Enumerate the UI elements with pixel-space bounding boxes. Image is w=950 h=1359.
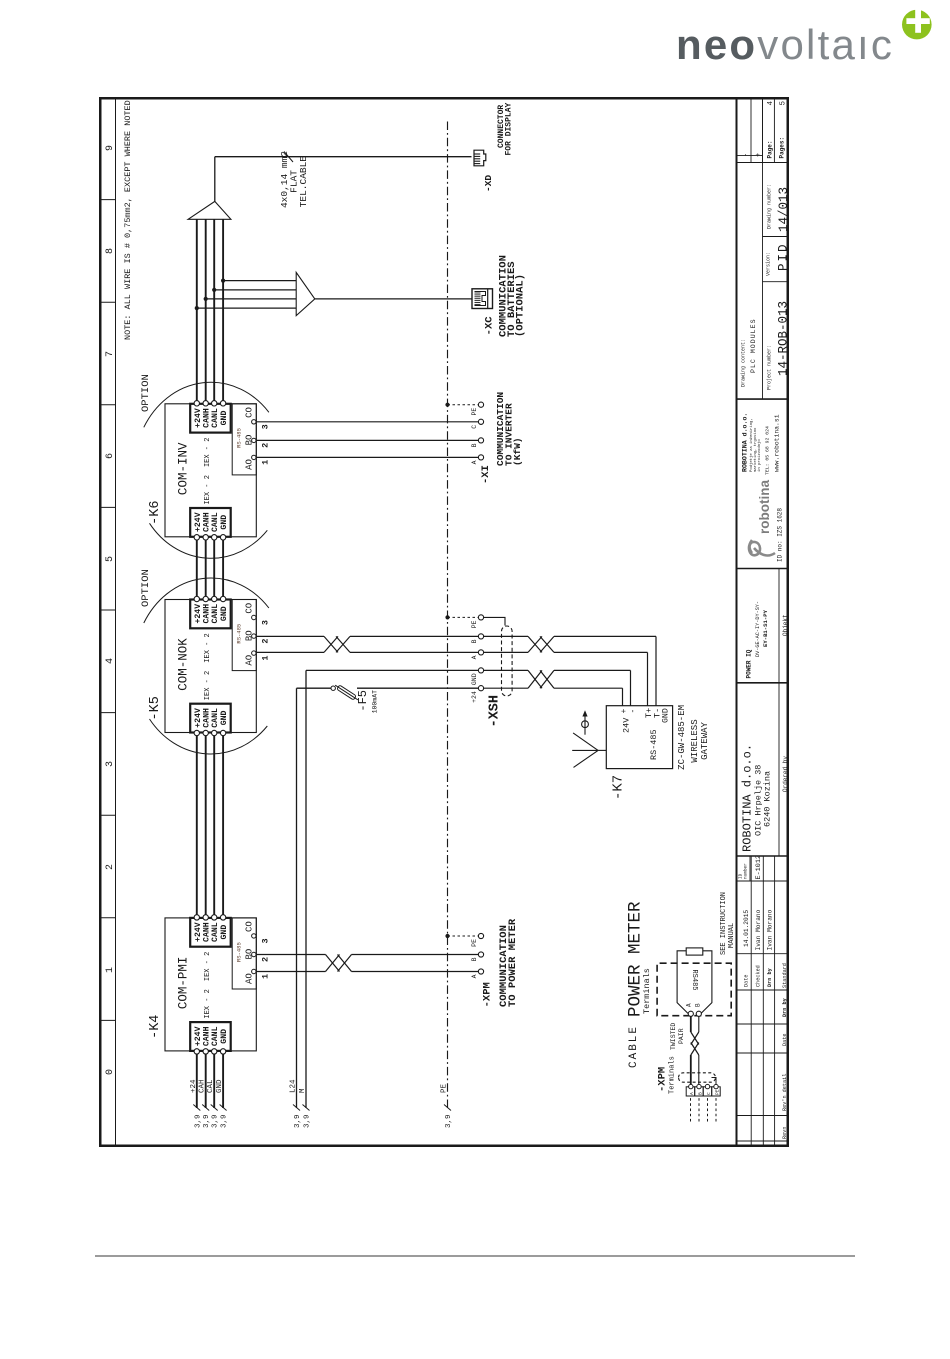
svg-text:PE: PE — [471, 939, 478, 947]
svg-text:RS-485: RS-485 — [649, 729, 659, 760]
XSH PE junction dot + dashed drop — [445, 615, 449, 619]
svg-text:Project number:: Project number: — [767, 345, 773, 390]
svg-text:B: B — [471, 639, 478, 643]
neovoltaic company logo — [676, 21, 894, 69]
svg-text:GND: GND — [216, 1079, 224, 1093]
svg-text:1: 1 — [261, 655, 271, 660]
wire flat tel cable to XD — [214, 157, 216, 202]
svg-text:DV-GE-AC-IY-DY-SY-: DV-GE-AC-IY-DY-SY- — [755, 601, 761, 657]
svg-text:0: 0 — [105, 1069, 116, 1075]
svg-text:PE: PE — [441, 1083, 449, 1093]
svg-text:+24V: +24V — [194, 1026, 203, 1046]
wire B to K7 T- — [484, 635, 528, 637]
svg-text:-F5: -F5 — [356, 690, 370, 712]
branch junction dots and drops to XC arrow — [195, 306, 199, 310]
svg-text:NOTE: ALL WIRE IS # 0,75mm2, E: NOTE: ALL WIRE IS # 0,75mm2, EXCEPT WHER… — [123, 100, 133, 340]
svg-text:OPTION: OPTION — [140, 374, 152, 412]
svg-text:+24V: +24V — [194, 708, 203, 728]
svg-text:-K5: -K5 — [148, 696, 163, 720]
svg-text:Drawing content:: Drawing content: — [741, 339, 747, 387]
svg-text:Ivan Morano: Ivan Morano — [755, 909, 762, 950]
connector XC rj45 icon — [472, 289, 493, 309]
twisted pair marks meter cable — [691, 1043, 699, 1056]
PE tail page ref — [444, 1105, 451, 1111]
svg-text:PE: PE — [714, 1089, 720, 1095]
module -K5 COM-NOK — [165, 596, 271, 735]
svg-text:CAL: CAL — [207, 1079, 215, 1093]
svg-text:3,9: 3,9 — [194, 1114, 202, 1128]
svg-text:Page:: Page: — [767, 140, 774, 158]
svg-text:9: 9 — [105, 145, 116, 151]
svg-text:SEE INSTRUCTION: SEE INSTRUCTION — [720, 892, 728, 955]
wire K5 BO to XSH B — [256, 635, 324, 637]
svg-text:CANL: CANL — [211, 1026, 220, 1046]
svg-text:-K6: -K6 — [148, 500, 163, 524]
svg-text:A: A — [686, 1003, 693, 1007]
svg-text:AO: AO — [245, 459, 255, 470]
svg-text:+24V: +24V — [194, 922, 203, 942]
svg-text:B: B — [695, 1003, 702, 1007]
svg-text:www.robotina.si: www.robotina.si — [774, 414, 781, 472]
svg-text:-: - — [629, 709, 638, 714]
svg-text:3,9: 3,9 — [445, 1114, 453, 1128]
svg-text:WIRELESS: WIRELESS — [690, 719, 700, 762]
XPM terminal circles — [478, 969, 483, 974]
svg-text:Ivan Morano: Ivan Morano — [767, 909, 774, 950]
PE to shield hook — [484, 617, 505, 625]
svg-text:+: + — [620, 709, 629, 714]
svg-text:IEX - 2: IEX - 2 — [204, 671, 212, 700]
svg-text:5: 5 — [780, 101, 788, 106]
svg-text:(KfW): (KfW) — [512, 437, 523, 466]
svg-text:E-1012: E-1012 — [755, 855, 763, 879]
svg-text:4: 4 — [105, 658, 116, 664]
svg-text:GND: GND — [220, 1029, 229, 1044]
svg-text:OPTION: OPTION — [140, 569, 152, 607]
svg-text:M: M — [299, 1088, 307, 1093]
svg-text:3,9: 3,9 — [304, 1114, 312, 1128]
svg-text:C: C — [706, 1092, 712, 1095]
svg-text:ROBOTINA d.o.o.: ROBOTINA d.o.o. — [741, 744, 755, 852]
svg-text:3: 3 — [261, 938, 271, 943]
svg-text:GND: GND — [220, 515, 229, 530]
svg-text:POWER IQ: POWER IQ — [746, 649, 753, 678]
svg-text:3: 3 — [261, 620, 271, 625]
bus continuation arrow right — [188, 201, 231, 219]
svg-text:7: 7 — [105, 351, 116, 357]
svg-text:EY-B1-S1-PY: EY-B1-S1-PY — [762, 609, 769, 647]
option ellipse arcs — [144, 382, 269, 427]
svg-text:PID: PID — [777, 242, 790, 271]
svg-text:CO: CO — [245, 407, 255, 418]
footer divider line — [95, 1255, 855, 1257]
svg-text:ID no: IZS 1628: ID no: IZS 1628 — [777, 508, 784, 562]
wire to XC connector — [315, 298, 472, 300]
svg-text:CANL: CANL — [211, 708, 220, 728]
svg-text:Drn by: Drn by — [782, 997, 788, 1017]
svg-text:+24V: +24V — [194, 408, 203, 428]
svg-text:Version:: Version: — [766, 252, 772, 276]
svg-text:-XSH: -XSH — [488, 695, 503, 727]
svg-text:C: C — [471, 425, 478, 429]
shield ellipse meter cable — [679, 1073, 716, 1082]
svg-text:3: 3 — [261, 424, 271, 429]
rf signal symbol — [582, 721, 589, 728]
wire CAN bus K4 to K5 — [196, 733, 198, 918]
svg-text:CANL: CANL — [211, 408, 220, 428]
wire CAN bus K6 to arrow — [196, 219, 198, 404]
svg-text:B: B — [471, 443, 478, 447]
svg-text:2: 2 — [105, 864, 116, 870]
XSH terminal circles — [478, 686, 483, 691]
svg-text:ROBOTINA d.o.o.: ROBOTINA d.o.o. — [742, 413, 749, 472]
XPM terminal block at meter — [686, 1084, 720, 1121]
svg-text:CANL: CANL — [211, 512, 220, 532]
wire CAN bus segment left tails to K4 — [196, 1051, 198, 1108]
svg-text:TO POWER METER: TO POWER METER — [507, 918, 519, 1007]
wire K6 pin2 to XI B — [256, 439, 478, 441]
wire K4 AO to XPM A — [256, 971, 326, 973]
svg-text:RS-485: RS-485 — [236, 942, 243, 962]
chain dash-dot PE boundary line — [447, 120, 449, 1108]
svg-text:AO: AO — [245, 973, 255, 984]
svg-text:PE: PE — [471, 408, 478, 416]
power meter dashed enclosure — [657, 963, 731, 1016]
svg-text:3,9: 3,9 — [294, 1114, 302, 1128]
svg-text:+24V: +24V — [194, 512, 203, 532]
svg-text:PE: PE — [471, 620, 478, 628]
svg-text:Date: Date — [744, 975, 750, 987]
svg-text:+24: +24 — [190, 1079, 198, 1093]
svg-text:14/013: 14/013 — [777, 187, 789, 232]
svg-text:GATEWAY: GATEWAY — [700, 722, 710, 760]
wire rail L24 — [296, 688, 298, 1108]
wire K6 pin3 to XI C — [256, 421, 478, 423]
svg-text:Ordered by: Ordered by — [782, 756, 789, 792]
shield to PE hook — [712, 1078, 717, 1086]
svg-text:TWISTED: TWISTED — [670, 1023, 677, 1050]
svg-text:TEL.CABLE: TEL.CABLE — [298, 156, 309, 208]
twisted pair marks below XSH — [528, 670, 542, 688]
svg-text:GND: GND — [220, 710, 229, 725]
svg-text:IEX - 2: IEX - 2 — [204, 438, 212, 467]
robotina logo cell — [749, 480, 783, 562]
bus continuation arrow down to XC — [296, 272, 315, 315]
svg-text:GND: GND — [662, 708, 671, 723]
svg-text:-XPM: -XPM — [482, 982, 494, 1007]
wire GND to K7 24V- — [484, 669, 528, 671]
svg-text:IEX - 2: IEX - 2 — [204, 952, 212, 981]
svg-text:4: 4 — [767, 101, 775, 106]
svg-text:IEX - 2: IEX - 2 — [204, 633, 212, 662]
svg-text:6240 Kozina: 6240 Kozina — [763, 771, 773, 827]
svg-text:+: + — [755, 153, 763, 157]
svg-text:-K7: -K7 — [611, 775, 627, 800]
svg-text:GND: GND — [471, 673, 478, 685]
module -K6 COM-INV — [165, 401, 271, 540]
svg-text:A: A — [471, 974, 478, 978]
svg-text:2: 2 — [261, 957, 271, 962]
svg-text:3: 3 — [105, 761, 116, 767]
svg-text:Rev'n detail: Rev'n detail — [782, 1074, 788, 1111]
svg-text:Checked: Checked — [756, 965, 762, 987]
svg-text:2: 2 — [261, 638, 271, 643]
svg-text:CANL: CANL — [211, 604, 220, 624]
svg-text:GND: GND — [220, 606, 229, 621]
wire A to K7 T+ — [484, 651, 528, 653]
option ellipse arcs — [144, 578, 269, 623]
svg-text:6: 6 — [105, 453, 116, 459]
svg-text:Objekt: Objekt — [782, 614, 789, 636]
svg-text:24V: 24V — [622, 717, 632, 733]
module -K4 COM-PMI — [165, 915, 271, 1054]
svg-text:B: B — [471, 957, 478, 961]
wire K6 pin1 to XI A — [256, 456, 478, 458]
XPM PE junction dot + dashed drop — [445, 934, 449, 938]
svg-text:robotina: robotina — [757, 480, 772, 534]
svg-text:FOR DISPLAY: FOR DISPLAY — [505, 102, 514, 155]
svg-text:TEL: 05 68 92 024: TEL: 05 68 92 024 — [765, 426, 771, 475]
XI terminal circles — [478, 455, 483, 460]
svg-text:IEX - 2: IEX - 2 — [204, 989, 212, 1018]
svg-text:A: A — [471, 655, 478, 659]
svg-text:in proizvodnjo: in proizvodnjo — [757, 439, 762, 472]
svg-text:Pages:: Pages: — [779, 137, 786, 159]
svg-text:+24: +24 — [471, 691, 478, 703]
wire CAN bus K5 to K6 — [196, 537, 198, 600]
XI PE junction dot + dashed drop — [445, 403, 449, 407]
svg-text:AO: AO — [245, 655, 255, 666]
svg-text:number: number — [744, 863, 749, 879]
wire K4 BO to XPM B — [256, 954, 326, 956]
svg-text:Revn: Revn — [782, 1127, 788, 1139]
svg-text:CO: CO — [245, 921, 255, 932]
svg-text:RS485: RS485 — [690, 969, 698, 990]
twisted pair marks K4-XPM — [326, 955, 340, 972]
svg-text:3,9: 3,9 — [203, 1114, 211, 1128]
svg-text:-K4: -K4 — [148, 1015, 163, 1039]
svg-text:5: 5 — [105, 556, 116, 562]
twisted pair marks K5-XSH — [324, 636, 338, 652]
svg-text:+24V: +24V — [194, 604, 203, 624]
svg-text:L24: L24 — [290, 1079, 298, 1093]
svg-text:Terminals: Terminals — [669, 1056, 677, 1094]
svg-text:CANL: CANL — [211, 922, 220, 942]
svg-text:3,9: 3,9 — [212, 1114, 220, 1128]
svg-text:CO: CO — [245, 603, 255, 614]
svg-text:-XPM: -XPM — [657, 1067, 669, 1092]
svg-text:B: B — [697, 1092, 703, 1095]
svg-text:-XI: -XI — [480, 465, 492, 484]
svg-text:COM-PMI: COM-PMI — [177, 957, 191, 1010]
svg-text:RS-485: RS-485 — [236, 624, 243, 644]
svg-text:8: 8 — [105, 248, 116, 254]
connector XD rj11 icon — [474, 150, 486, 166]
svg-text:1: 1 — [105, 967, 116, 973]
ruler strip — [115, 97, 117, 1147]
svg-text:Terminals: Terminals — [642, 968, 652, 1014]
wire meter A — [690, 1055, 692, 1084]
wire meter B — [698, 1055, 700, 1084]
drawing frame border — [100, 98, 788, 1146]
meter RS485 pentagon — [677, 948, 712, 1017]
svg-text:100mAT: 100mAT — [372, 690, 379, 714]
svg-text:3,9: 3,9 — [221, 1114, 229, 1128]
svg-text:Standard: Standard — [782, 963, 788, 988]
svg-text:14.01.2015: 14.01.2015 — [743, 910, 750, 947]
rail tails — [293, 1105, 300, 1111]
svg-text:(OPTIONAL): (OPTIONAL) — [515, 274, 527, 337]
svg-text:CABLE: CABLE — [628, 1025, 640, 1068]
cable tick — [284, 152, 293, 163]
title block — [737, 97, 790, 1147]
wire +24 to K7 24V+ — [484, 687, 528, 689]
shield ellipse at XSH — [502, 626, 513, 696]
svg-text:Drn by: Drn by — [767, 967, 773, 987]
svg-text:-: - — [743, 153, 751, 157]
fuse F5 100mAT — [331, 686, 335, 690]
svg-text:Drawing number:: Drawing number: — [767, 184, 773, 229]
svg-text:PAIR: PAIR — [678, 1028, 685, 1044]
svg-text:COM-NOK: COM-NOK — [177, 638, 191, 691]
svg-text:IEX - 2: IEX - 2 — [204, 475, 212, 504]
svg-text:COM-INV: COM-INV — [177, 442, 191, 495]
wire K5 AO to XSH A — [256, 651, 324, 653]
svg-text:GND: GND — [220, 925, 229, 940]
gateway K7 ZC-GW-485-EM — [606, 706, 672, 769]
svg-text:Date: Date — [782, 1034, 788, 1046]
wire tails page refs 3,9 (bus) — [193, 1105, 200, 1111]
antenna — [598, 749, 606, 751]
wire rail M — [305, 670, 307, 1108]
svg-text:A: A — [471, 460, 478, 464]
svg-text:A: A — [689, 1092, 695, 1095]
svg-text:-XC: -XC — [484, 316, 496, 336]
svg-text:-XD: -XD — [483, 175, 494, 192]
svg-text:ZC-GW-485-EM: ZC-GW-485-EM — [677, 705, 687, 770]
svg-text:2: 2 — [261, 443, 271, 448]
svg-text:1: 1 — [261, 460, 271, 465]
svg-text:GND: GND — [220, 411, 229, 426]
svg-text:PLC MODULES: PLC MODULES — [750, 318, 757, 373]
svg-text:1: 1 — [261, 974, 271, 979]
svg-text:14-ROB-013: 14-ROB-013 — [777, 301, 790, 376]
svg-text:MANUAL: MANUAL — [728, 923, 736, 948]
termination resistor — [686, 948, 703, 955]
svg-text:CAH: CAH — [199, 1079, 207, 1093]
svg-text:RS-485: RS-485 — [236, 428, 243, 448]
